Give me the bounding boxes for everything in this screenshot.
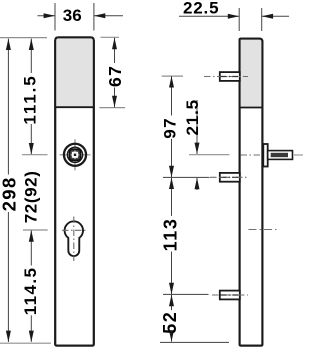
spindle square bar [271,153,288,157]
fixing pin 3 (bottom) [220,291,240,300]
pin1 ref line [162,75,183,77]
svg-text:67: 67 [105,65,125,87]
pin3 ref line [163,293,209,295]
knob-center reference line [22,154,48,156]
113 arrows [169,178,174,189]
22.5 arrows [228,14,239,19]
spindle shaft [268,151,293,160]
cylinder-center reference line [23,229,48,231]
dim line 298 segments [7,39,9,175]
fixing pin 2 (middle) [220,173,240,182]
keyhole crosshair dash-dot [62,217,86,262]
bottom-right reference line [160,341,229,343]
dim 36 extension lines [54,3,56,31]
spindle axis right dash [294,154,303,156]
52 arrows [169,295,174,306]
svg-text:22.5: 22.5 [183,0,219,17]
spindle flange [263,144,267,167]
298 arrows [6,39,11,50]
cylinder axis dash-dot (side) [249,229,278,231]
side plate outline [240,39,263,346]
col2 arrows [29,39,34,50]
bottom-left reference line [0,342,51,344]
side plate grey top [240,39,263,108]
svg-text:97: 97 [161,117,180,139]
pin 1 centerline [204,76,248,78]
pin 3 centerline [212,294,248,296]
dim line col2 segments [30,39,32,73]
svg-text:113: 113 [161,217,181,251]
dim line 67 segments [114,38,116,63]
pin 2 centerline [210,176,248,178]
spindle ref line [189,154,230,156]
svg-text:114.5: 114.5 [21,267,40,316]
67 bottom reference line [99,107,125,109]
front plate grey top section [55,37,94,107]
97 arrows [169,76,174,87]
pin2 ref line [163,176,210,178]
21.5 arrows [195,143,200,154]
67 arrows [112,38,117,49]
top reference line [0,37,47,39]
svg-text:52: 52 [160,311,180,334]
front plate outline redraw [55,37,94,345]
36 arrows [44,13,55,18]
front plate seam line [55,106,94,108]
spindle axis dash-dot [241,154,262,156]
dim 21.5 line [196,100,198,154]
cylinder knob [64,144,86,166]
dim 22.5 line [179,15,239,17]
svg-text:72(92): 72(92) [22,171,41,224]
side plate seam line [240,107,263,109]
svg-text:21.5: 21.5 [183,99,202,135]
svg-text:298: 298 [0,176,20,211]
67 top reference line [101,36,120,38]
fixing pin 1 (top) [220,72,240,81]
knob crosshair [60,139,91,170]
dim 36 tails [38,15,56,17]
side plate outline redraw [240,39,263,346]
svg-text:111.5: 111.5 [20,74,39,124]
svg-text:36: 36 [63,6,82,25]
euro profile cylinder hole [65,221,83,256]
front plate outline [55,37,94,345]
dim col 97/113/52 segments [171,76,173,115]
dim 22.5 extension lines [238,8,240,31]
arrowheads [6,13,273,342]
